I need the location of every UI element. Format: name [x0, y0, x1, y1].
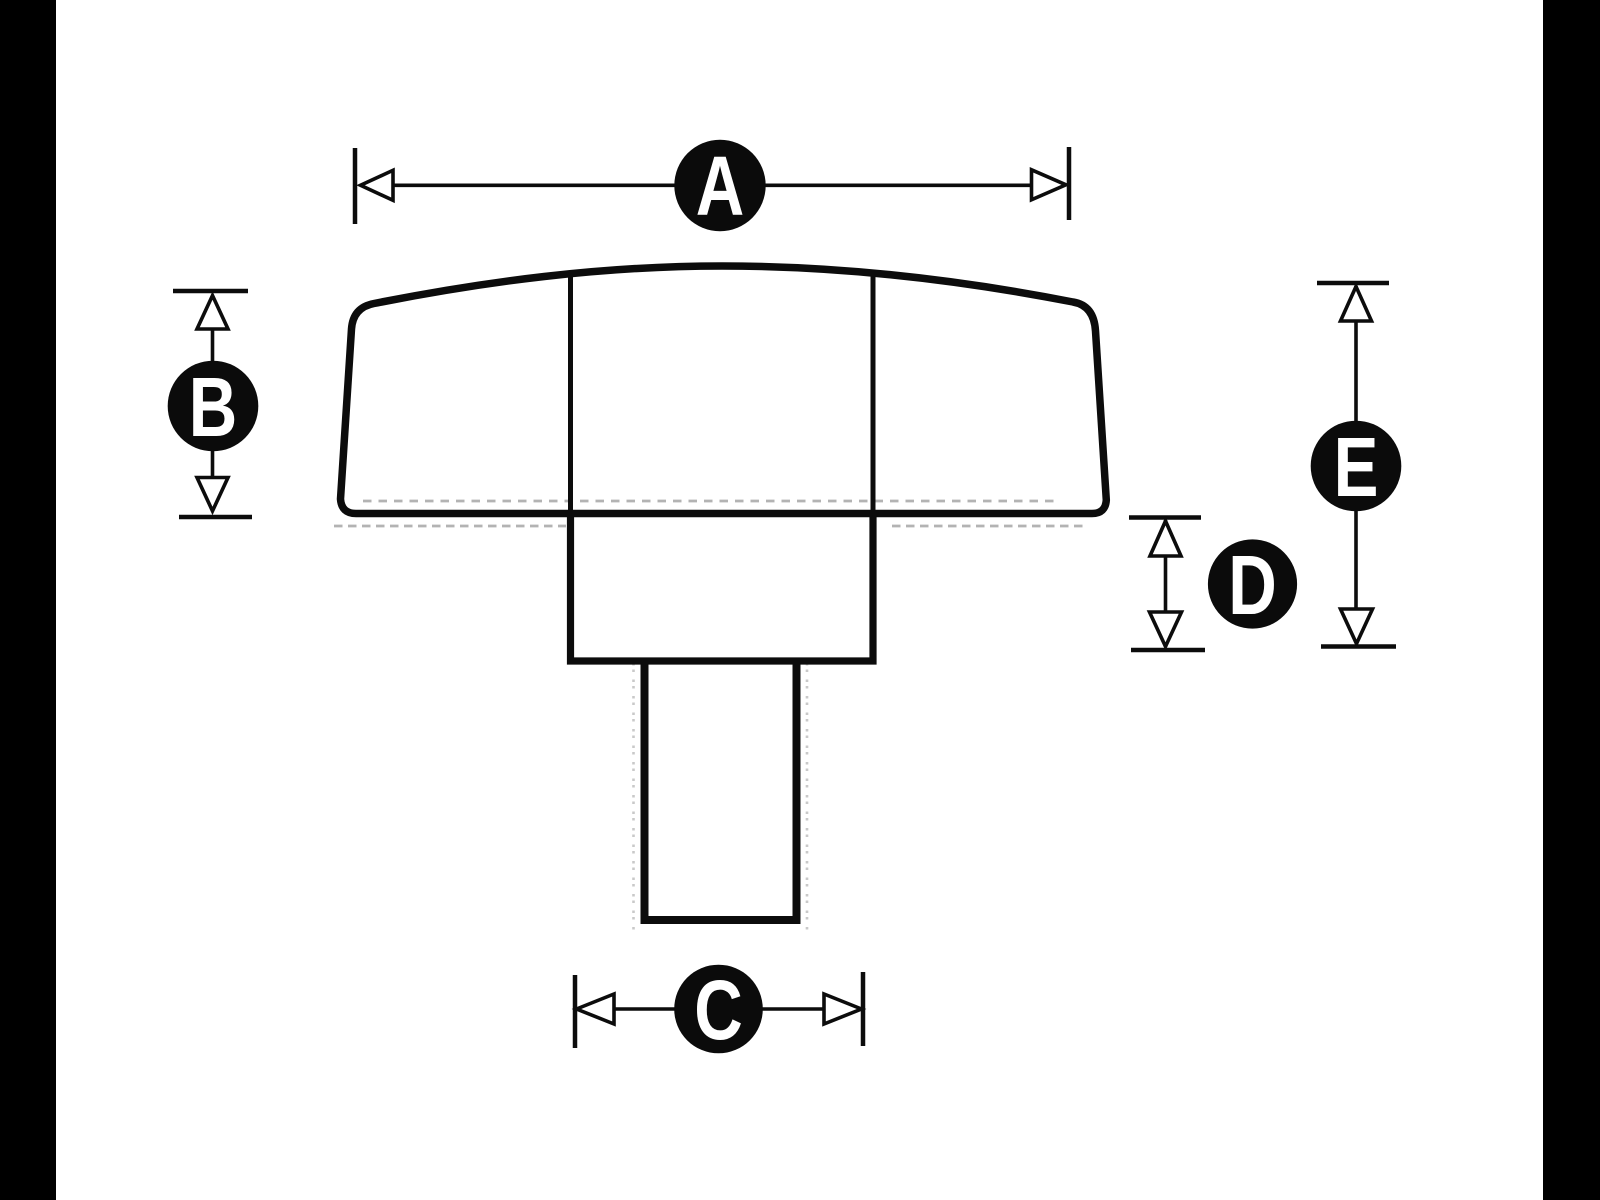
- hidden dashed line upper (wing underside, above bottom edge): [363, 500, 1058, 503]
- svg-text:B: B: [189, 361, 238, 455]
- hidden dotted thread line right of stud: [806, 663, 809, 930]
- dimension C extension tick right: [861, 972, 866, 1046]
- dimension B extension tick bottom: [179, 515, 252, 520]
- label D circle: [1208, 539, 1297, 628]
- dimension D extension tick bottom: [1131, 648, 1205, 653]
- right black pillar bar: [1543, 0, 1600, 1200]
- left black pillar bar: [0, 0, 56, 1200]
- dimension B extension tick top: [173, 289, 248, 294]
- dimension E line: [1354, 286, 1358, 642]
- dimension E arrowhead up: [1341, 287, 1372, 322]
- hub boss rectangle below wing: [571, 515, 874, 661]
- dimension B line: [211, 297, 215, 510]
- dimension B arrowhead up: [197, 296, 228, 330]
- svg-text:D: D: [1228, 539, 1277, 633]
- dimension E extension tick top: [1317, 281, 1389, 286]
- svg-text:E: E: [1334, 421, 1379, 515]
- hub division line right: [871, 271, 876, 514]
- dimension A arrowhead right: [1032, 170, 1067, 200]
- wing knob head outline: [341, 266, 1107, 514]
- dimension A extension tick right: [1067, 147, 1072, 220]
- dimension A arrowhead left: [361, 170, 394, 200]
- svg-text:C: C: [694, 964, 743, 1058]
- label C letter: [694, 964, 743, 1058]
- hub division line left: [568, 272, 573, 514]
- dimension B arrowhead down: [197, 478, 228, 512]
- label A letter: [696, 140, 745, 234]
- dimension E arrowhead down: [1341, 609, 1373, 644]
- label E circle: [1311, 421, 1402, 512]
- label C circle: [674, 965, 763, 1054]
- label B letter: [189, 361, 238, 455]
- dimension D arrowhead down: [1150, 612, 1182, 647]
- dimension D arrowhead up: [1150, 521, 1181, 556]
- dimension A extension tick left: [353, 148, 358, 224]
- label E letter: [1334, 421, 1379, 515]
- dimension C arrowhead right: [824, 994, 862, 1024]
- dimension C arrowhead left: [577, 994, 615, 1024]
- dimension E extension tick bottom: [1321, 644, 1396, 649]
- label D letter: [1228, 539, 1277, 633]
- svg-text:A: A: [696, 140, 745, 234]
- dimension C line: [578, 1007, 860, 1011]
- dimension C extension tick left: [573, 975, 578, 1048]
- dimension D extension tick top: [1129, 515, 1201, 520]
- threaded stud: [645, 663, 797, 920]
- dimension D line: [1164, 520, 1168, 647]
- dimension A line: [362, 184, 1064, 188]
- hidden dashed line lower right (wing back edge right of boss): [892, 525, 1086, 528]
- label B circle: [168, 361, 259, 452]
- hidden dotted thread line left of stud: [632, 663, 635, 930]
- hidden dashed line lower left (wing back edge left of boss): [334, 525, 566, 528]
- label A circle: [674, 140, 765, 231]
